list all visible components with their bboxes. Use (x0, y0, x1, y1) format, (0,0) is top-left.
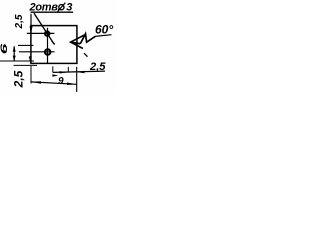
leader arrowhead (51, 41, 55, 45)
svg-text:9: 9 (58, 76, 64, 87)
bottom short extension x=68.3 (67, 67, 69, 73)
svg-text:2,5: 2,5 (89, 61, 106, 73)
dim 2,5 right: dimension line (53, 71, 105, 72)
hole 2 horizontal centerline (19, 51, 55, 53)
leader from note to holes (34, 13, 54, 44)
small arrow mark left of 9 (52, 74, 58, 76)
svg-text:2,5: 2,5 (12, 70, 26, 88)
60 deg shelf line (95, 35, 112, 37)
hole note diameter symbol (59, 5, 64, 10)
hole 1 (45, 31, 49, 35)
hole 1 horizontal centerline (27, 32, 55, 34)
dim 2,5 top-left arrowhead (30, 26, 33, 33)
view arrow barbs (71, 35, 85, 49)
hole 2 (45, 49, 50, 54)
bottom short extension x=52.8 (52, 66, 54, 72)
view arrow tail (71, 42, 81, 44)
plate outline (31, 26, 77, 64)
bottom extension line left (x=31) (30, 66, 32, 84)
right dim arrows (60, 71, 69, 73)
svg-text:2,5: 2,5 (14, 14, 25, 29)
dim 9 arrows (31, 81, 41, 84)
hole note underline (31, 11, 74, 13)
small diagonal mark right (84, 53, 88, 57)
bottom extension line right (x=76.7) (76, 67, 78, 92)
60 deg zig leader (80, 34, 95, 44)
extension line lower left (0, 60, 34, 62)
extension line upper (6 dim) (18, 44, 33, 46)
extension line bottom left (14, 64, 38, 66)
dim 2,5 top-left: extension/dimension line (30, 14, 32, 33)
svg-text:6: 6 (0, 43, 9, 55)
floating down arrowhead near plate left-bottom (29, 56, 32, 63)
vertical centerline through holes (47, 28, 49, 63)
dim 9 line (31, 82, 77, 84)
dim 6 line with arrows (13, 46, 15, 61)
